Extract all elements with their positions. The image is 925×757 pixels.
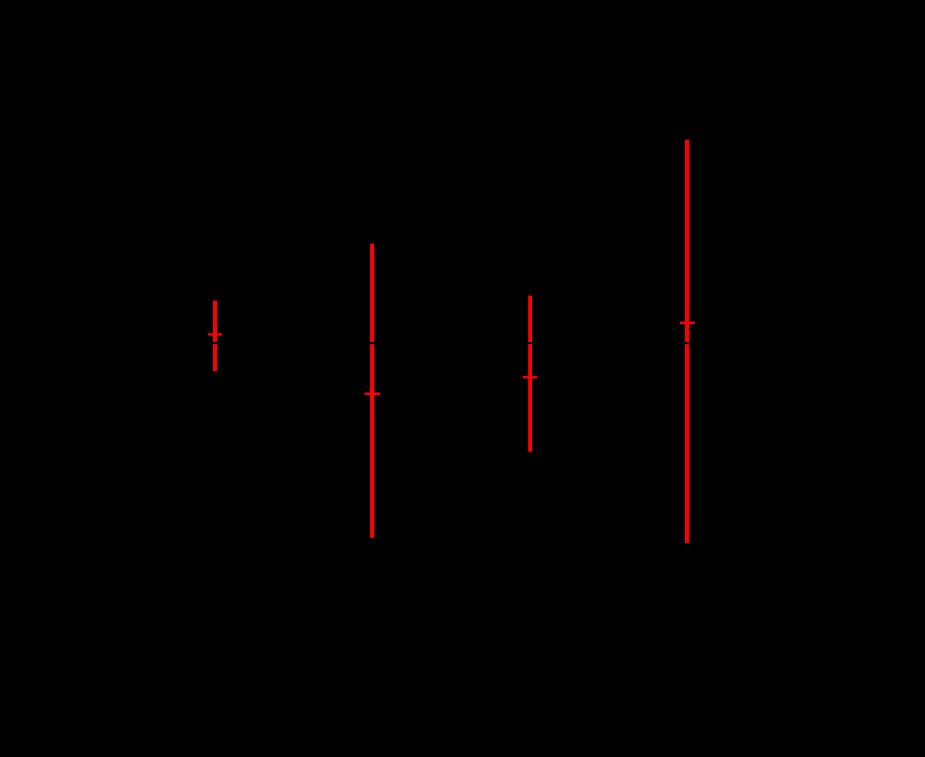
errorbar point 2 vertical line	[370, 244, 374, 538]
marker point 2 (plus crossbar)	[365, 393, 380, 396]
errorbar point 3 vertical line	[528, 296, 532, 452]
axes frame (black, invisible on black background)	[116, 91, 833, 674]
marker point 4 (plus crossbar)	[680, 322, 695, 325]
marker point 1 (plus crossbar)	[208, 333, 222, 335]
errorbar point 4 vertical line	[685, 140, 689, 543]
marker point 3 (plus crossbar)	[523, 376, 537, 378]
black horizontal mean line drawn over the errorbars (creates gaps at y=343)	[116, 342, 833, 344]
errorbar point 1 vertical line	[213, 301, 217, 372]
